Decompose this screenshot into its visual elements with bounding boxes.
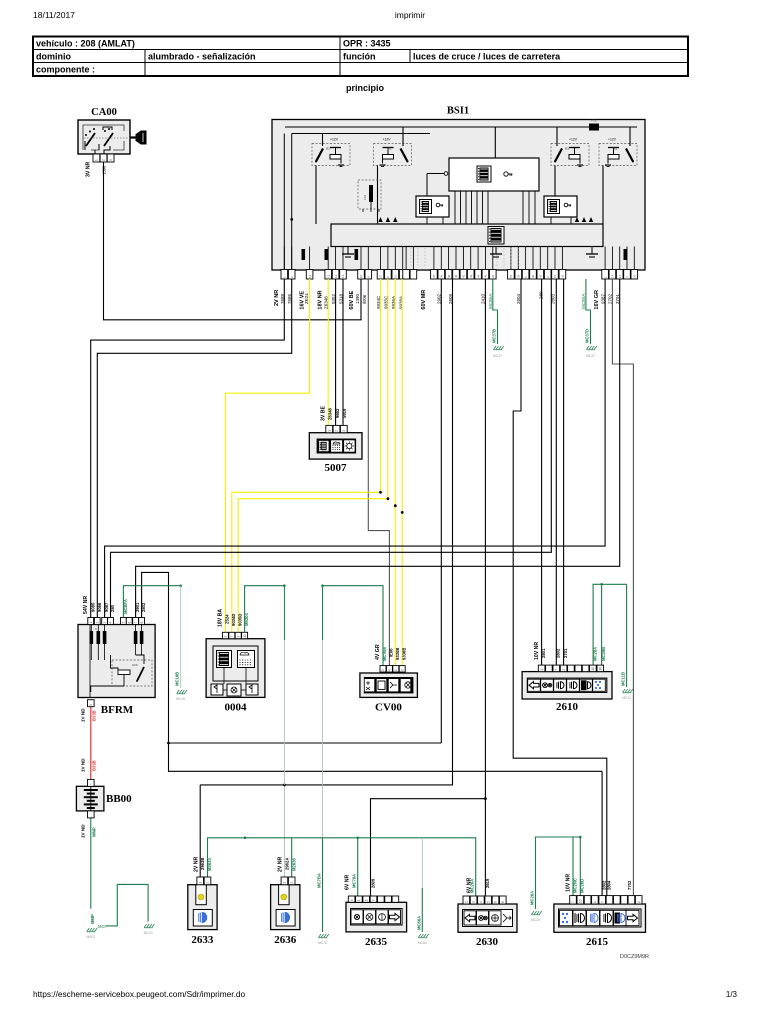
svg-text:MMP: MMP: [92, 827, 97, 837]
svg-text:18/11/2017: 18/11/2017: [33, 10, 75, 20]
svg-text:10V NR: 10V NR: [534, 642, 540, 660]
svg-text:10: 10: [633, 274, 637, 278]
relay R2: [312, 137, 350, 166]
wire U3 stubs: [550, 217, 552, 224]
svg-text:1: 1: [327, 430, 331, 432]
svg-text:2604: 2604: [516, 293, 521, 304]
svg-text:3: 3: [109, 159, 113, 161]
svg-text:D0CZ9M9R: D0CZ9M9R: [620, 954, 649, 960]
svg-text:7702: 7702: [627, 880, 632, 890]
svg-text:componente :: componente :: [36, 65, 95, 75]
wire 2702 BSI jog to 2615 7702: [612, 279, 633, 896]
connector 2610: [522, 672, 612, 699]
headlamp unit 2615: [554, 904, 646, 932]
svg-text:luces de cruce / luces de carr: luces de cruce / luces de carretera: [413, 52, 561, 62]
wire U2 stubs: [426, 217, 428, 224]
fuse F26: [589, 124, 599, 131]
svg-text:MC10: MC10: [176, 697, 185, 701]
svg-text:14: 14: [341, 274, 345, 278]
ground MC13: [144, 924, 147, 928]
svg-text:9336B: 9336B: [401, 648, 406, 660]
fuses inside BFRM: [90, 625, 144, 661]
svg-text:2963B: 2963B: [200, 858, 205, 870]
svg-text:CV00: CV00: [375, 702, 402, 714]
svg-text:16: 16: [394, 274, 398, 278]
relay R3: [551, 137, 589, 166]
svg-text:2962A: 2962A: [284, 858, 289, 870]
pin row 2636: [281, 877, 295, 885]
svg-text:2802: 2802: [141, 602, 146, 612]
svg-text:2V NR: 2V NR: [193, 856, 199, 872]
svg-text:función: función: [343, 52, 376, 62]
module U1: [444, 158, 539, 191]
pin row 2633: [197, 877, 211, 885]
ground M001: [87, 928, 90, 932]
svg-text:4: 4: [388, 669, 392, 671]
svg-text:R2: R2: [326, 147, 330, 151]
svg-text:MC66A: MC66A: [416, 916, 421, 930]
wire relay R1 output: [377, 166, 379, 225]
svg-text:47: 47: [539, 274, 543, 278]
svg-text:R5: R5: [613, 147, 617, 151]
svg-text:46: 46: [484, 274, 488, 278]
svg-text:MC7BA: MC7BA: [317, 873, 322, 888]
ground MC11: [623, 689, 626, 693]
svg-text:+12V: +12V: [608, 137, 617, 141]
svg-text:alumbrado - señalización: alumbrado - señalización: [148, 52, 256, 62]
svg-text:ZE24: ZE24: [304, 293, 309, 304]
ignition switch CA00: [78, 107, 130, 154]
wire 2802 drop to 2615: [601, 771, 603, 895]
svg-text:5: 5: [486, 901, 490, 903]
svg-text:MCV66: MCV66: [382, 646, 387, 661]
wire 280 BSI to 2610 pin1: [541, 279, 543, 665]
svg-text:1/3: 1/3: [726, 990, 738, 999]
svg-text:M9304: M9304: [244, 613, 249, 626]
wire ground link MCP to MC13: [107, 884, 149, 926]
svg-text:9662: 9662: [335, 408, 340, 418]
pin row 2610: [538, 665, 603, 672]
wire stubs bar to pins: [284, 247, 634, 270]
svg-text:40: 40: [454, 274, 458, 278]
ground MC37 right: [587, 346, 590, 350]
wire 2962A drop to 2636: [283, 785, 285, 877]
svg-text:MC16B: MC16B: [175, 672, 180, 686]
svg-text:15: 15: [326, 274, 330, 278]
svg-text:dominio: dominio: [36, 52, 71, 62]
wire green bus1 lamps ground: [208, 838, 476, 896]
svg-text:MC37: MC37: [493, 354, 502, 358]
svg-text:principio: principio: [346, 83, 385, 93]
dashed grid lines under bar: [411, 248, 525, 268]
battery BB00: [76, 786, 104, 811]
svg-text:M001: M001: [87, 935, 96, 939]
svg-text:60V MR: 60V MR: [421, 290, 427, 310]
svg-text:Z524: Z524: [225, 614, 230, 624]
svg-text:4: 4: [479, 901, 483, 903]
wire bus1 drop to 2636 pin2: [291, 838, 293, 877]
svg-text:16V GR: 16V GR: [594, 290, 600, 310]
svg-text:4: 4: [350, 899, 354, 901]
svg-text:2: 2: [206, 882, 210, 884]
svg-text:MC70: MC70: [318, 941, 327, 945]
svg-text:35: 35: [517, 274, 521, 278]
svg-text:MC37: MC37: [586, 354, 595, 358]
wire bus1 drop to 2635: [357, 838, 359, 896]
internal verticals left pins: [283, 134, 285, 270]
wire Z6348 BSI to 5007 (yellow): [327, 279, 329, 425]
svg-text:2: 2: [562, 669, 566, 671]
wire 9936A BSI to CV00 (yellow): [394, 279, 396, 666]
svg-text:MC11: MC11: [622, 696, 631, 700]
svg-text:6V NR: 6V NR: [345, 874, 351, 890]
svg-text:4: 4: [109, 622, 113, 624]
svg-text:/E06: /E06: [389, 648, 394, 657]
svg-text:2633: 2633: [191, 934, 214, 946]
module U2: [416, 196, 449, 217]
svg-text:3V NR: 3V NR: [86, 161, 92, 177]
headlamp 2636: [271, 885, 300, 946]
wire relay R1 feed: [402, 127, 404, 146]
wire relay R2 output: [315, 166, 317, 225]
svg-text:MC60: MC60: [418, 941, 427, 945]
svg-text:7: 7: [230, 636, 234, 638]
svg-text:MCP: MCP: [98, 924, 108, 929]
svg-text:BB00: BB00: [106, 793, 132, 805]
svg-text:MC78A: MC78A: [352, 874, 357, 888]
wire MCBFA green bus A: [123, 586, 180, 618]
svg-text:2610: 2610: [556, 701, 579, 713]
svg-text:5919: 5919: [342, 408, 347, 418]
svg-text:1: 1: [89, 622, 93, 624]
pin row 2635: [348, 896, 398, 902]
svg-text:32: 32: [561, 274, 565, 278]
svg-text:9087: 9087: [104, 602, 109, 612]
wire bus1 drop ground MC7: [322, 838, 324, 932]
pin row BFRM: [88, 618, 145, 625]
svg-text:MC13: MC13: [144, 931, 153, 935]
svg-text:+12V: +12V: [383, 137, 392, 141]
svg-text:2802: 2802: [556, 648, 561, 658]
svg-text:7: 7: [134, 622, 138, 624]
wire green bus2 2615 ground: [536, 837, 581, 909]
switch module 2635: [346, 902, 407, 932]
module 0004: [206, 639, 265, 698]
svg-text:MC37D: MC37D: [585, 329, 590, 343]
svg-text:2: 2: [96, 622, 100, 624]
ground MC16B: [177, 690, 180, 694]
wire U1 left stub: [427, 173, 444, 175]
svg-text:2635: 2635: [365, 936, 388, 948]
wire U1 to main bar ribbon: [455, 191, 535, 224]
control unit BSI1: [272, 120, 645, 271]
svg-text:MC37B: MC37B: [492, 329, 497, 343]
svg-text:2: 2: [637, 901, 641, 903]
wire bus1 drop ground MC6: [421, 838, 423, 888]
wire 2963B drop to 2633: [199, 785, 201, 877]
pin row BSI1 bottom: [281, 270, 638, 280]
connector CV00: [360, 673, 418, 697]
svg-text:8: 8: [140, 622, 144, 624]
wire bus2 drop to 2615 pin1: [572, 837, 574, 896]
pin BB00 bottom: [88, 811, 95, 818]
svg-text:-: -: [89, 816, 93, 817]
svg-text:36: 36: [440, 274, 444, 278]
svg-text:B33B: B33B: [92, 710, 97, 721]
wire green bus B 0004: [245, 586, 285, 633]
svg-text:30: 30: [531, 274, 535, 278]
key symbol: [130, 131, 146, 144]
svg-text:MC26A: MC26A: [593, 647, 598, 661]
svg-text:1390: 1390: [355, 293, 360, 304]
ground symbols inside BSI1: [342, 247, 598, 258]
svg-text:M2633: M2633: [207, 858, 212, 871]
svg-text:0004: 0004: [225, 702, 248, 714]
svg-text:Z6348: Z6348: [328, 407, 333, 420]
svg-text:MC11B: MC11B: [621, 672, 626, 686]
internal bus wire B: [292, 133, 430, 135]
pin BFRM bottom: [88, 700, 95, 707]
svg-text:3: 3: [342, 430, 346, 432]
wire 2604 BSI jog down: [513, 279, 607, 896]
svg-text:B33B: B33B: [92, 760, 97, 771]
capacitor blobs: [302, 249, 628, 260]
svg-text:2: 2: [290, 882, 294, 884]
wire 9938A BSI to CV00 (yellow): [401, 279, 403, 666]
svg-text:1: 1: [593, 901, 597, 903]
svg-text:2: 2: [381, 669, 385, 671]
pin row 2615: [570, 896, 642, 904]
svg-text:2901: 2901: [135, 602, 140, 612]
wire 2609 BSI to 2633/2636: [200, 279, 452, 785]
svg-text:R08: R08: [132, 663, 138, 667]
wire pale drop to ground MC16B: [180, 586, 182, 688]
svg-text:3: 3: [236, 636, 240, 638]
svg-text:7: 7: [600, 901, 604, 903]
svg-text:44: 44: [476, 274, 480, 278]
wire pale drop to ground MC7: [322, 586, 324, 640]
svg-text:BFRM: BFRM: [101, 704, 134, 716]
wire 2410 BSI to 2630 and 2635: [484, 279, 486, 896]
svg-text:10: 10: [579, 899, 583, 903]
svg-text:https://escheme-servicebox.peu: https://escheme-servicebox.peugeot.com/S…: [33, 989, 246, 999]
svg-text:16: 16: [599, 667, 603, 671]
wire 9662 BSI to 5007: [335, 279, 337, 425]
svg-text:+12V: +12V: [330, 137, 339, 141]
wire 9935C BSI to 0004 (yellow): [238, 279, 388, 632]
svg-text:MMP: MMP: [90, 914, 95, 924]
wire MCB5A right to ground MC37: [586, 279, 591, 344]
switch module 2630: [458, 904, 517, 932]
wire relay R3 feed: [556, 127, 558, 146]
svg-text:CA00: CA00: [91, 107, 117, 118]
svg-text:12: 12: [334, 274, 338, 278]
svg-text:14: 14: [611, 274, 615, 278]
wire bus3 drop MC26B: [601, 584, 603, 665]
svg-text:43: 43: [469, 274, 473, 278]
pin row 2630: [463, 896, 506, 904]
svg-text:vehículo : 208 (AMLAT): vehículo : 208 (AMLAT): [36, 39, 135, 49]
svg-text:MC26A: MC26A: [530, 891, 535, 905]
svg-text:OPR : 3435: OPR : 3435: [343, 39, 391, 49]
svg-text:imprimir: imprimir: [395, 10, 425, 20]
svg-text:9034D: 9034D: [231, 614, 236, 626]
svg-text:MC26: MC26: [531, 918, 540, 922]
svg-text:3: 3: [400, 669, 404, 671]
resistor F15 dashed box: [358, 180, 381, 212]
wire green bus3 2610 grounds: [593, 584, 627, 665]
svg-text:F26: F26: [591, 119, 597, 123]
wire /E06 BSI to CV00: [368, 279, 389, 666]
icons 2610: [528, 679, 606, 691]
svg-text:+12V: +12V: [569, 137, 578, 141]
svg-text:4V GR: 4V GR: [375, 644, 381, 660]
up arrows on stubs: [378, 217, 593, 222]
svg-text:1: 1: [224, 636, 228, 638]
wire branch to 2635: [371, 799, 486, 896]
svg-text:41: 41: [462, 274, 466, 278]
svg-text:2: 2: [364, 899, 368, 901]
svg-text:27: 27: [379, 274, 383, 278]
svg-text:38: 38: [447, 274, 451, 278]
svg-text:MC26B: MC26B: [601, 647, 606, 661]
fuse box BFRM: [78, 625, 155, 698]
svg-text:3: 3: [372, 899, 376, 901]
wire 9087 BFRM to BSI 9387: [105, 279, 605, 618]
svg-text:5: 5: [122, 622, 126, 624]
svg-text:2636: 2636: [274, 934, 297, 946]
pin row CV00: [380, 666, 405, 672]
svg-text:54V NR: 54V NR: [83, 596, 89, 614]
svg-text:10: 10: [359, 274, 363, 278]
svg-text:R1: R1: [388, 147, 392, 151]
svg-text:2619: 2619: [485, 878, 490, 888]
svg-text:35: 35: [432, 274, 436, 278]
svg-text:2V NR: 2V NR: [278, 856, 284, 872]
module 5007: [309, 433, 362, 459]
svg-text:6: 6: [494, 901, 498, 903]
svg-text:BSI1: BSI1: [447, 106, 469, 117]
svg-text:2701: 2701: [563, 648, 568, 658]
pin row CA00: [93, 154, 114, 162]
wire 2701 BSI to 2610 pin4: [563, 279, 565, 665]
pin row 5007: [326, 425, 347, 432]
svg-text:19: 19: [553, 274, 557, 278]
svg-text:13: 13: [308, 274, 312, 278]
svg-text:1: 1: [394, 669, 398, 671]
wire 2802 BFRM route: [142, 572, 602, 771]
svg-text:+: +: [89, 783, 93, 785]
wire 1V ND green BB00 down: [90, 818, 92, 909]
internal bus wire A: [285, 126, 637, 128]
svg-text:280: 280: [110, 604, 115, 612]
svg-text:18V BA: 18V BA: [218, 609, 224, 627]
wire relay R5 output: [602, 166, 604, 225]
svg-text:MCBFA: MCBFA: [123, 599, 128, 614]
wire 280 BFRM to BSI: [111, 279, 552, 618]
wire ZE24 BSI to 0004 (yellow): [225, 279, 309, 632]
svg-text:10: 10: [591, 667, 595, 671]
ground MC7: [319, 934, 322, 938]
svg-text:57: 57: [509, 274, 513, 278]
svg-text:9066: 9066: [97, 602, 102, 612]
wire 2902 BSI to junction: [440, 279, 442, 743]
svg-text:10V NR: 10V NR: [566, 874, 572, 892]
svg-text:7: 7: [555, 669, 559, 671]
svg-text:8: 8: [501, 901, 505, 903]
svg-text:2804: 2804: [607, 880, 612, 890]
svg-text:9085: 9085: [91, 602, 96, 612]
svg-text:2V NR: 2V NR: [274, 290, 280, 306]
wire bus3 drop to ground MC11: [626, 584, 628, 687]
relay R1: [374, 137, 412, 166]
svg-text:MC2NC: MC2NC: [572, 878, 577, 893]
svg-text:6V NR: 6V NR: [466, 877, 472, 893]
svg-text:MC26D: MC26D: [580, 879, 585, 893]
wire green bus C CV00: [323, 586, 384, 666]
svg-text:12: 12: [243, 634, 247, 638]
header table: [33, 37, 688, 77]
wire 2901 BFRM to BSI 3791: [136, 279, 620, 618]
svg-text:2: 2: [335, 430, 339, 432]
svg-text:MCB5A: MCB5A: [581, 293, 586, 309]
svg-text:2: 2: [465, 901, 469, 903]
svg-text:5007: 5007: [325, 462, 348, 474]
svg-text:18V NR: 18V NR: [318, 290, 324, 309]
headlamp 2633: [188, 885, 217, 946]
ground MC26 bus2: [532, 911, 535, 915]
svg-text:7: 7: [571, 901, 575, 903]
svg-text:2801: 2801: [541, 648, 546, 658]
svg-text:3: 3: [103, 622, 107, 624]
svg-text:1: 1: [540, 669, 544, 671]
wire relay R3 output: [554, 166, 556, 197]
svg-text:9: 9: [89, 704, 93, 706]
svg-text:9035D: 9035D: [237, 614, 242, 626]
svg-text:13: 13: [618, 274, 622, 278]
wire 1390 CA00 to BSI: [104, 162, 362, 320]
svg-text:1V ND: 1V ND: [81, 708, 86, 722]
svg-text:9330B: 9330B: [395, 648, 400, 660]
wire 9934C BSI to 0004 (yellow): [232, 279, 381, 632]
svg-text:1: 1: [95, 159, 99, 161]
svg-text:/E06: /E06: [362, 294, 367, 304]
svg-text:1: 1: [283, 882, 287, 884]
relay inside BFRM: [91, 655, 152, 692]
wire pale drop to 2636: [283, 586, 285, 640]
wire branch 2902 horizontal: [169, 742, 442, 744]
svg-text:1V ND: 1V ND: [81, 758, 86, 772]
svg-text:R3: R3: [565, 147, 569, 151]
wire U1 feed: [494, 127, 496, 158]
svg-text:21: 21: [491, 274, 495, 278]
pin BB00 top: [88, 779, 95, 786]
wire MCB5A left to ground MC37: [493, 279, 498, 344]
wire 5919 BSI to 5007: [342, 279, 344, 425]
svg-text:6: 6: [127, 622, 131, 624]
ground MC6: [418, 934, 421, 938]
svg-text:2630: 2630: [476, 936, 499, 948]
pin row 0004: [222, 632, 247, 638]
wire relay R2 feed: [322, 134, 324, 147]
ground MC37 left: [494, 346, 497, 350]
svg-text:3: 3: [472, 901, 476, 903]
wire 1V ND red BFRM to BB00: [90, 707, 92, 780]
main processor bar U4: [331, 224, 603, 247]
wire 2803 BSI to 2610 pin3: [555, 279, 557, 665]
svg-text:2809: 2809: [371, 878, 376, 888]
svg-text:2: 2: [102, 159, 106, 161]
